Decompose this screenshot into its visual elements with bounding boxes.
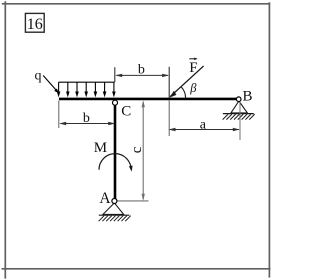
frame bottom border bbox=[2, 268, 271, 270]
column AC (vertical bar) bbox=[114, 100, 117, 199]
moment M arc bbox=[99, 154, 131, 170]
force F arrowhead bbox=[169, 91, 176, 98]
problem number box bbox=[25, 13, 44, 32]
extension line above force point bbox=[168, 67, 170, 98]
dimension a line bbox=[169, 128, 240, 131]
distributed load arrow 3 bbox=[75, 82, 79, 97]
svg-text:a: a bbox=[200, 118, 207, 133]
support B ground line bbox=[223, 113, 254, 115]
support B triangle bbox=[231, 101, 248, 113]
extension line below beam left end bbox=[58, 101, 60, 129]
distributed load arrow 5 bbox=[94, 82, 98, 97]
support B hatching bbox=[223, 114, 255, 120]
label F vector bbox=[189, 58, 197, 76]
hinge circle C bbox=[113, 100, 118, 105]
svg-text:b: b bbox=[83, 111, 90, 126]
support A ground line bbox=[99, 214, 130, 216]
distributed load arrow 2 bbox=[66, 82, 70, 97]
extension line above C bbox=[114, 67, 116, 82]
svg-text:q: q bbox=[35, 69, 42, 84]
svg-text:A: A bbox=[99, 190, 111, 207]
svg-text:C: C bbox=[121, 103, 131, 119]
frame top border bbox=[2, 3, 270, 5]
dimension c line bbox=[142, 100, 145, 201]
svg-text:16: 16 bbox=[27, 16, 43, 33]
beam CB (horizontal) bbox=[59, 98, 237, 101]
svg-text:M: M bbox=[94, 140, 107, 156]
extension line below force point bbox=[168, 101, 170, 137]
dimension b (top) line bbox=[115, 74, 169, 77]
svg-text:b: b bbox=[138, 62, 145, 77]
distributed load arrow 4 bbox=[84, 82, 88, 97]
svg-text:c: c bbox=[129, 146, 145, 153]
extension line below B bbox=[239, 102, 241, 140]
q leader arrow bbox=[43, 76, 59, 94]
distributed load arrow 6 bbox=[103, 82, 107, 97]
support A hatching bbox=[99, 216, 131, 222]
distributed load arrow 7 bbox=[112, 82, 116, 97]
frame left border bbox=[4, 1, 6, 278]
force F line bbox=[170, 66, 203, 97]
frame right border bbox=[268, 2, 270, 277]
svg-text:B: B bbox=[243, 88, 253, 104]
hinge circle B bbox=[236, 97, 241, 102]
svg-text:β: β bbox=[189, 81, 197, 95]
svg-text:F: F bbox=[189, 60, 197, 76]
distributed load q top line bbox=[59, 81, 115, 83]
distributed load arrow 1 bbox=[57, 82, 61, 97]
moment M arrowhead bbox=[129, 166, 133, 172]
angle beta arc bbox=[181, 87, 185, 98]
hinge circle A bbox=[112, 199, 117, 204]
support A triangle bbox=[103, 203, 124, 215]
extension line at A for c bbox=[117, 200, 149, 202]
dimension b (bottom) line bbox=[59, 122, 115, 125]
